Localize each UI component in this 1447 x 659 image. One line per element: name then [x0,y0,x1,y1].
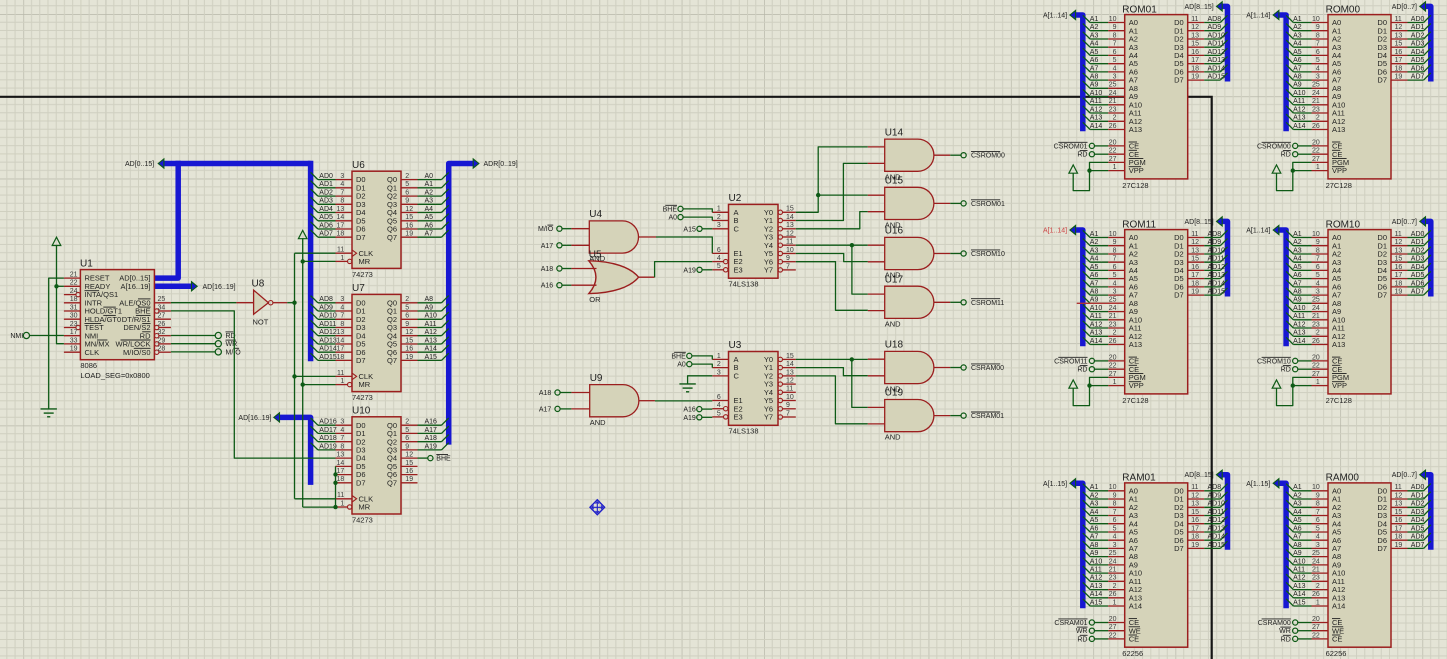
svg-text:19: 19 [1191,542,1199,549]
RAM00 pin 16 D4, net AD4 [1377,517,1430,529]
RAM00 pin 5 A5, net A6 [1286,525,1341,537]
U5 output pin stub [639,276,655,278]
wire A19 to U2 E3 [702,269,712,271]
svg-text:4: 4 [717,255,721,262]
svg-text:5: 5 [1113,272,1117,279]
svg-text:19: 19 [1191,74,1199,81]
svg-text:9: 9 [1316,24,1320,31]
ROM10 pin 27 PGM [1312,371,1350,382]
svg-text:A13: A13 [1129,340,1142,349]
RAM00 pin 10 A0, net A1 [1286,484,1341,496]
svg-text:4: 4 [1316,65,1320,72]
svg-text:D7: D7 [1377,291,1387,300]
svg-text:AD5: AD5 [319,214,333,221]
U6 pin 7 D2 net AD2 [311,189,366,201]
svg-text:23: 23 [1109,321,1117,328]
ROM01 pin 24 A9, net A10 [1083,89,1138,101]
U7 pin 7 D2 net AD10 [311,312,366,324]
wire CLK vertical net (ALE inverted) [294,253,296,499]
svg-text:22: 22 [1312,632,1320,639]
svg-text:25: 25 [1312,297,1320,304]
svg-text:2: 2 [405,173,409,180]
terminal RD at ROM10 [1293,367,1298,372]
svg-text:A14: A14 [1293,338,1306,345]
svg-text:A0: A0 [677,362,686,369]
svg-text:A15: A15 [1090,599,1103,606]
RAM00 pin 3 A7, net A8 [1286,541,1341,553]
svg-text:A11: A11 [1090,567,1102,574]
ROM10 pin 21 A10, net A11 [1286,313,1345,325]
svg-text:A2: A2 [1293,239,1302,246]
svg-text:7: 7 [1316,256,1320,263]
svg-text:6: 6 [717,247,721,254]
svg-text:4: 4 [1113,65,1117,72]
svg-text:13: 13 [337,452,345,459]
bus terminal arrow AD bus at ROM11 [1217,217,1223,226]
ROM11 pin 9 A1, net A2 [1083,239,1138,251]
wire U3 Y1 to U18 bottom [796,368,868,376]
ROM11 pin 16 D4, net AD12 [1174,263,1227,275]
svg-text:OR: OR [589,295,601,304]
U7 pin 19 Q7 net A15 [387,353,449,365]
ROM01 pin 27 PGM [1108,156,1146,167]
svg-text:CSROM00: CSROM00 [971,153,1005,160]
U18 output pin stub [934,367,950,369]
svg-text:5: 5 [1113,525,1117,532]
svg-text:ROM00: ROM00 [1326,4,1361,15]
RAM00 pin 9 A1, net A2 [1286,492,1341,504]
U3 pin 11 Y4 [764,386,796,397]
svg-text:A16: A16 [683,407,696,414]
svg-text:26: 26 [1109,591,1117,598]
svg-text:17: 17 [1191,272,1199,279]
svg-text:AD14: AD14 [1208,65,1226,72]
svg-text:AD5: AD5 [1411,57,1425,64]
ROM00 pin 2 A12, net A13 [1286,114,1345,126]
svg-text:A9: A9 [1293,82,1302,89]
wire to U10 MR [303,506,336,508]
U10 pin 18 D7 [336,476,366,487]
svg-text:17: 17 [1191,57,1199,64]
svg-text:D7: D7 [1377,544,1387,553]
svg-text:16: 16 [1191,264,1199,271]
U6 pin 12 Q4 net A4 [387,205,449,217]
svg-text:A4: A4 [1293,509,1302,516]
svg-text:A7: A7 [1090,280,1099,287]
ROM00 pin 8 A2, net A3 [1286,32,1341,44]
terminal CSROM00 at ROM00 [1293,143,1298,148]
RAM01 pin 18 D6, net AD14 [1174,533,1227,545]
svg-text:10: 10 [1109,231,1117,238]
ROM10 pin 25 A8, net A9 [1286,296,1341,308]
svg-text:A[1..15]: A[1..15] [1043,481,1067,488]
U18 input pin stubs [868,359,885,376]
svg-text:ROM01: ROM01 [1122,4,1157,15]
svg-text:13: 13 [1395,501,1403,508]
wire CSRAM01 at RAM01 [1095,622,1109,624]
svg-text:AD15: AD15 [1208,542,1226,549]
ROM10 pin 13 D2, net AD2 [1377,247,1430,259]
svg-text:26: 26 [1312,591,1320,598]
wire U19 output [950,415,961,417]
svg-text:A11: A11 [1090,98,1102,105]
svg-text:8: 8 [1113,247,1117,254]
bus AD8..AD15 at ROM01 [1222,6,1227,81]
svg-text:A1: A1 [1090,16,1099,23]
svg-text:U10: U10 [352,405,371,416]
ROM00 pin 27 PGM [1312,156,1350,167]
svg-text:18: 18 [337,231,345,238]
terminal CSROM10 [961,251,966,256]
RAM00 pin 17 D5, net AD5 [1377,525,1430,537]
terminal A0 (U3 B input) [687,362,692,367]
svg-text:A10: A10 [1293,558,1306,565]
svg-text:27: 27 [1312,156,1320,163]
svg-text:10: 10 [1312,231,1320,238]
wire+pin U9 input B (A17) [560,408,571,410]
svg-text:19: 19 [405,231,413,238]
U1 pin 29 WR/LOCK [115,337,170,348]
svg-text:6: 6 [405,313,409,320]
svg-text:A13: A13 [1332,340,1345,349]
svg-text:15: 15 [1395,509,1403,516]
svg-text:19: 19 [405,476,413,483]
U3 pin 2 B [712,361,738,372]
svg-text:1: 1 [1316,599,1320,606]
svg-text:U14: U14 [885,127,904,138]
wire to U7 MR [303,384,336,386]
U2 pin 7 Y7 [764,263,796,274]
svg-text:14: 14 [337,214,345,221]
ROM10 pin 22 CE [1312,363,1343,374]
svg-text:6: 6 [1113,264,1117,271]
svg-text:23: 23 [1312,575,1320,582]
U1 pin 34 BHE [135,304,171,315]
svg-text:A3: A3 [1293,501,1302,508]
wire CSROM00 to CE [1298,145,1312,147]
svg-text:13: 13 [337,329,345,336]
svg-text:A2: A2 [1293,24,1302,31]
svg-text:7: 7 [340,190,344,197]
svg-text:21: 21 [1109,567,1117,574]
svg-text:AD7: AD7 [1411,542,1425,549]
svg-text:14: 14 [786,214,794,221]
wire U18 output [950,367,961,369]
svg-text:VPP: VPP [1129,166,1144,175]
ROM10 pin 26 A13, net A14 [1286,337,1345,349]
RAM01 pin 7 A3, net A4 [1083,508,1138,520]
U2 pin 15 Y0 [764,206,796,217]
svg-text:18: 18 [1191,534,1199,541]
svg-text:A15: A15 [425,354,438,361]
RAM00 pin 19 D7, net AD7 [1377,541,1430,553]
wire RD at RAM01 [1095,638,1109,640]
RAM01 pin 15 D3, net AD11 [1174,508,1227,520]
svg-text:C: C [734,372,740,381]
svg-text:24: 24 [1109,90,1117,97]
ROM01 pin 15 D3, net AD11 [1174,40,1227,52]
bus terminal arrow A[1..15] at RAM00 [1273,479,1279,488]
terminal CSROM11 at ROM11 [1089,358,1094,363]
svg-text:18: 18 [337,476,345,483]
svg-text:Q7: Q7 [387,233,397,242]
svg-text:A14: A14 [1129,602,1142,611]
U10 pin 7 D2 net AD18 [311,435,366,447]
ROM00 pin 6 A4, net A5 [1286,48,1341,60]
svg-text:AD8: AD8 [1208,484,1222,491]
ROM11 pin 6 A4, net A5 [1083,263,1138,275]
svg-text:26: 26 [1109,123,1117,130]
U3 pin 9 Y6 [764,402,796,413]
U3 pin 14 Y1 [764,361,796,372]
svg-text:A[1..14]: A[1..14] [1246,13,1270,20]
ROM11 pin 3 A7, net A8 [1083,288,1138,300]
svg-text:A16: A16 [425,419,438,426]
svg-text:A5: A5 [1090,49,1099,56]
wire U2 Y4 to U16 top [796,244,868,246]
and-gate U9 body [590,385,639,417]
ROM01 pin 1 VPP [1108,164,1144,175]
svg-text:A7: A7 [1090,65,1099,72]
svg-text:A19: A19 [683,267,696,274]
bus terminal arrow A[1..14] at ROM10 [1273,225,1279,234]
svg-text:A1: A1 [1090,231,1099,238]
svg-text:A15: A15 [683,226,696,233]
svg-text:74LS138: 74LS138 [729,279,759,288]
svg-text:12: 12 [786,378,794,385]
svg-text:12: 12 [1191,24,1199,31]
svg-text:AD11: AD11 [1208,41,1225,48]
RAM01 pin 5 A5, net A6 [1083,525,1138,537]
svg-text:7: 7 [1113,509,1117,516]
U3 pin 1 A [712,353,738,364]
svg-text:9: 9 [1113,24,1117,31]
U6 pin 17 D6 net AD6 [311,222,366,234]
ROM10 pin 12 D1, net AD1 [1377,239,1430,251]
svg-text:A8: A8 [1293,74,1302,81]
svg-text:WR: WR [226,341,238,348]
svg-text:22: 22 [1312,363,1320,370]
ROM10 pin 17 D5, net AD5 [1377,271,1430,283]
wire to U7 CLK [295,375,336,377]
RAM01 pin 19 D7, net AD15 [1174,541,1227,553]
wire ALE from U1 pin 25 to U8 input [171,302,237,304]
RAM01 pin 3 A7, net A8 [1083,541,1138,553]
svg-text:7: 7 [340,313,344,320]
RAM00 pin 11 D0, net AD0 [1377,484,1430,496]
bus from U1 AD[0..15] pin [154,161,178,278]
U1 pin 30 HLDA/GT0 [64,313,121,324]
svg-text:A1: A1 [1090,484,1099,491]
svg-text:A13: A13 [1090,330,1103,337]
junction Y4 branch [850,243,854,247]
junction VPP at ROM01 [1087,168,1091,172]
junction Y0 branch [816,193,820,197]
svg-text:62256: 62256 [1122,649,1143,658]
bus terminal arrow A[1..14] at ROM11 [1070,225,1076,234]
bus AD[0..15] top horizontal [164,161,311,167]
U6 pin 11 CLK [336,247,374,258]
svg-text:27: 27 [1109,156,1117,163]
RAM00 pin 6 A4, net A5 [1286,517,1341,529]
svg-text:A10: A10 [1293,305,1306,312]
svg-text:17: 17 [70,329,78,336]
svg-text:A8: A8 [1090,74,1099,81]
svg-text:RAM00: RAM00 [1326,473,1360,484]
U7 pin 13 D4 net AD12 [311,329,366,341]
svg-text:ADR[0..19]: ADR[0..19] [484,161,518,168]
svg-text:WR: WR [1279,628,1291,635]
U3 pin 4 E2 [712,402,742,413]
svg-text:MR: MR [359,380,371,389]
svg-text:AD3: AD3 [1411,256,1425,263]
U6 pin 15 Q5 net A5 [387,214,449,226]
svg-text:27: 27 [1312,371,1320,378]
svg-text:24: 24 [1312,90,1320,97]
U3 pin 15 Y0 [764,353,796,364]
svg-text:CSRAM00: CSRAM00 [971,365,1004,372]
RAM01 pin 13 D2, net AD10 [1174,500,1227,512]
bus terminal arrow AD[0..15] [158,159,164,168]
svg-text:U2: U2 [729,193,742,204]
svg-text:AD13: AD13 [319,337,337,344]
svg-text:A11: A11 [1293,567,1305,574]
terminal RD at ROM01 [1089,152,1094,157]
ROM11 pin 2 A12, net A13 [1083,329,1142,341]
svg-text:AD[0..15]: AD[0..15] [125,161,154,168]
wire VPP branch [1293,170,1312,172]
svg-text:AD5: AD5 [1411,525,1425,532]
U10 pin 15 Q5 [387,460,418,471]
U1 pin 25 ALE/QS0 [119,296,171,307]
ROM01 pin 16 D4, net AD12 [1174,48,1227,60]
svg-text:9: 9 [786,255,790,262]
svg-text:4: 4 [717,402,721,409]
svg-text:NMI: NMI [10,333,23,340]
svg-text:WR: WR [1076,628,1088,635]
RAM00 pin 7 A3, net A4 [1286,508,1341,520]
svg-text:17: 17 [337,222,345,229]
svg-text:17: 17 [1395,57,1403,64]
U1 pin 18 INTR [64,296,103,307]
svg-text:AD5: AD5 [1411,272,1425,279]
U6 pin 6 Q2 net A2 [387,189,449,201]
RAM00 pin 12 D1, net AD1 [1377,492,1430,504]
U1 pin 17 NMI [64,329,98,340]
svg-text:14: 14 [786,361,794,368]
svg-text:9: 9 [1113,239,1117,246]
U6 pin 14 D5 net AD5 [311,214,366,226]
U6 pin 3 D0 net AD0 [311,172,366,184]
svg-text:12: 12 [1395,492,1403,499]
ROM10 pin 24 A9, net A10 [1286,304,1341,316]
not-gate U8 body [254,290,269,314]
wire RD to OE [1095,153,1109,155]
svg-text:A3: A3 [1090,501,1099,508]
svg-text:AD2: AD2 [319,190,333,197]
U1 pin 27 DT/R/S1 [122,313,171,324]
svg-text:21: 21 [1109,313,1117,320]
svg-text:D7: D7 [1174,291,1184,300]
svg-text:8086: 8086 [80,361,97,370]
svg-text:23: 23 [1312,321,1320,328]
svg-text:11: 11 [1395,16,1402,23]
wire+pin U4 input B (A17) [562,244,571,246]
ROM00 pin 23 A11, net A12 [1286,106,1345,118]
bus AD8..AD15 at ROM11 [1222,221,1227,296]
wire to U6 CLK [295,252,336,254]
svg-text:A1: A1 [425,181,434,188]
RAM00 pin 1 A14, net A15 [1286,599,1345,611]
ROM10 pin 23 A11, net A12 [1286,321,1345,333]
U3 pin 13 Y2 [764,369,796,380]
bus AD0..AD7 at RAM00 [1426,475,1431,550]
svg-text:A[1..14]: A[1..14] [1246,228,1270,235]
svg-text:23: 23 [1109,106,1117,113]
wire U10 Q4 to BHE terminal [418,457,428,459]
U10 pin 6 Q2 net A18 [387,435,449,447]
svg-text:25: 25 [1312,550,1320,557]
decoder U2 74LS138 body [729,204,779,278]
ROM00 pin 4 A6, net A7 [1286,65,1341,77]
ROM10 pin 2 A12, net A13 [1286,329,1345,341]
svg-text:AD2: AD2 [1411,247,1425,254]
svg-text:3: 3 [1316,74,1320,81]
svg-text:AD10: AD10 [1208,32,1226,39]
U15 output pin stub [934,202,950,204]
RAM01 pin 24 A9, net A10 [1083,558,1138,570]
svg-text:27C128: 27C128 [1326,181,1352,190]
svg-text:2: 2 [405,296,409,303]
svg-text:AD11: AD11 [319,321,336,328]
svg-text:CLK: CLK [85,348,100,357]
svg-text:A6: A6 [1293,57,1302,64]
U10 pin 13 D4 [336,452,366,463]
ROM10 pin 20 CE [1312,354,1343,365]
ROM11 pin 26 A13, net A14 [1083,337,1142,349]
svg-text:RAM01: RAM01 [1122,473,1156,484]
U7 pin 16 Q6 net A14 [387,345,449,357]
U6 pin 1 MR [336,255,371,266]
ROM01 pin 25 A8, net A9 [1083,81,1138,93]
svg-text:62256: 62256 [1326,649,1347,658]
bus from U1 A[16..19] pin [154,284,191,290]
RAM00 pin 2 A12, net A13 [1286,582,1345,594]
svg-text:AD4: AD4 [1411,49,1425,56]
svg-text:15: 15 [405,337,413,344]
U10 pin 17 D6 [336,468,366,479]
wire RD to OE [1095,368,1109,370]
RAM01 pin 27 WE [1108,624,1141,635]
ROM01 pin 6 A4, net A5 [1083,48,1138,60]
svg-text:1: 1 [1113,599,1117,606]
U6 pin 19 Q7 net A7 [387,230,449,242]
svg-text:20: 20 [1312,139,1320,146]
svg-text:AD8: AD8 [1208,16,1222,23]
ROM00 pin 19 D7, net AD7 [1377,73,1430,85]
svg-text:10: 10 [1109,484,1117,491]
svg-text:1: 1 [1113,164,1117,171]
svg-text:C: C [734,224,740,233]
svg-text:D7: D7 [1174,76,1184,85]
svg-text:10: 10 [1109,16,1117,23]
U1 pin 28 M/IO/S0 [123,346,171,357]
wire U3 Y0 to U18 top [796,358,868,360]
svg-text:A5: A5 [1293,264,1302,271]
svg-text:27: 27 [1109,371,1117,378]
svg-text:A17: A17 [541,243,554,250]
svg-text:10: 10 [1312,16,1320,23]
